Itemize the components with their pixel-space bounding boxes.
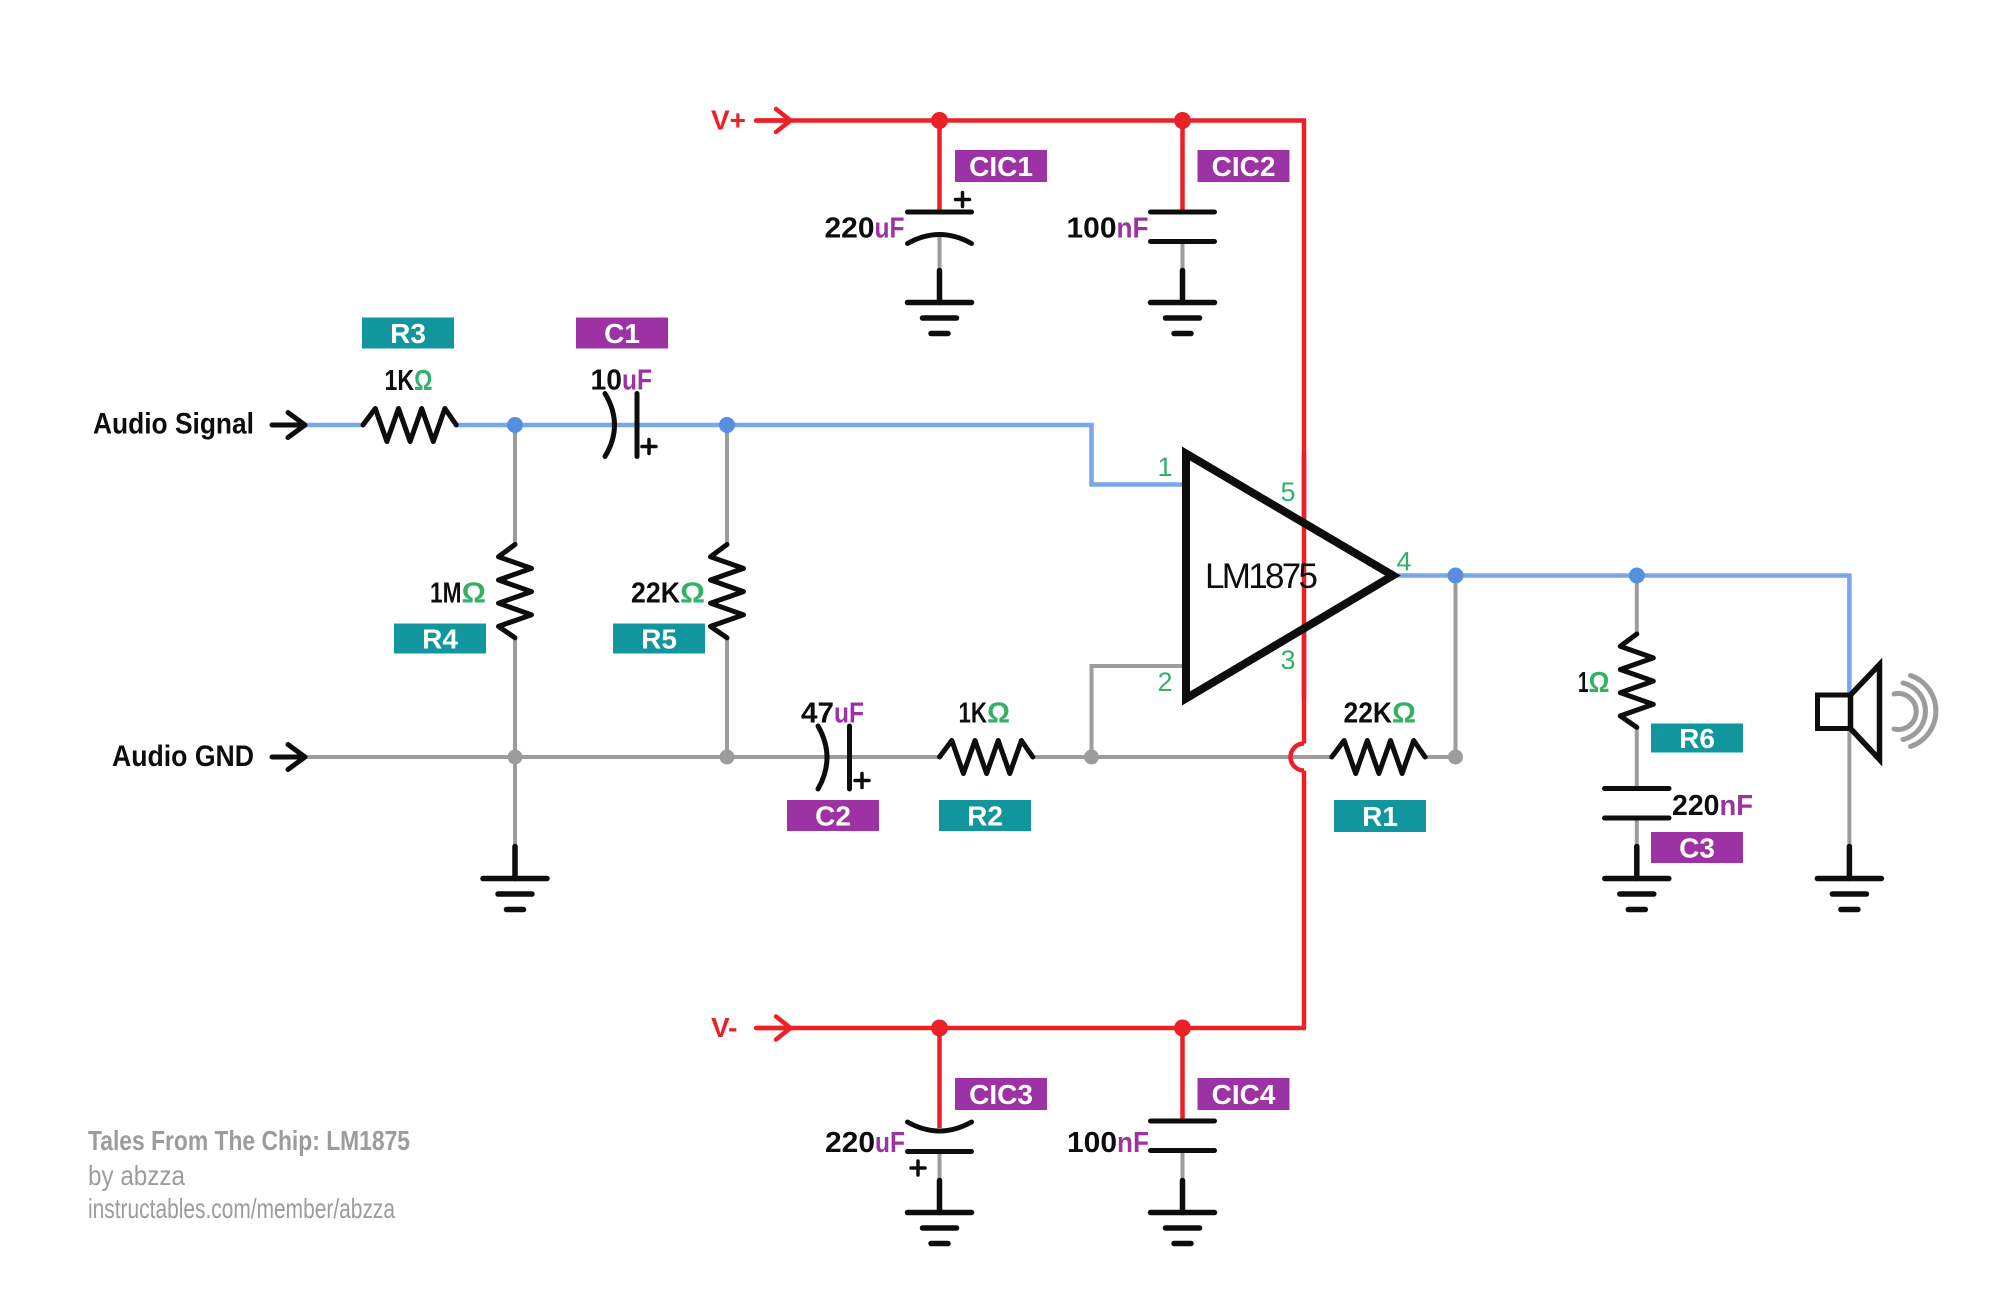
capacitor C3 220nF top plate (1605, 789, 1670, 819)
capacitor CIC3 bottom plate (908, 1149, 972, 1154)
label box R1 (1334, 800, 1426, 832)
node: signal / R4 junction (507, 417, 523, 433)
ground below CIC1 (908, 271, 972, 334)
label box R5 (613, 624, 705, 655)
svg-text:220: 220 (825, 1127, 875, 1159)
svg-text:C3: C3 (1679, 833, 1715, 864)
wire: inverting input elbow up from feedback node (1092, 666, 1187, 757)
pin 1 label (1157, 452, 1411, 697)
capacitor CIC4 bottom plate (1151, 1148, 1215, 1153)
label box R3 (362, 318, 454, 350)
value label C2 47uF (801, 698, 864, 730)
speaker magnet box (1818, 695, 1851, 729)
capacitor CIC3 220uF curved plate (908, 1122, 972, 1152)
node: feedback / output column junction (1448, 750, 1463, 765)
capacitor C1 10uF curved plate (605, 394, 637, 457)
svg-text:instructables.com/member/abzza: instructables.com/member/abzza (88, 1193, 395, 1224)
ground below CIC3 (908, 1181, 972, 1244)
V+ arrow (756, 109, 791, 132)
svg-text:by abzza: by abzza (88, 1160, 185, 1191)
label box C1 (576, 318, 668, 350)
svg-text:Ω: Ω (1589, 667, 1610, 699)
svg-text:R1: R1 (1362, 801, 1398, 832)
svg-text:uF: uF (834, 698, 864, 730)
svg-text:Audio GND: Audio GND (112, 740, 254, 773)
value label R2 1K ohm (959, 698, 1011, 730)
svg-text:100: 100 (1067, 213, 1117, 245)
svg-text:10: 10 (591, 365, 623, 397)
svg-text:1K: 1K (959, 698, 988, 730)
label box CIC2 (1198, 150, 1290, 182)
node: V- / CIC4 junction (1174, 1020, 1191, 1037)
svg-text:220: 220 (1672, 790, 1720, 822)
capacitor CIC1 curved plate (908, 235, 972, 244)
label box CIC3 (955, 1078, 1047, 1110)
capacitor C2 47uF curved plate (818, 726, 850, 789)
svg-text:3: 3 (1280, 645, 1295, 675)
value label CIC1 220uF (825, 213, 905, 245)
svg-text:22K: 22K (631, 578, 680, 610)
capacitor C2 plus sign (855, 774, 869, 788)
svg-text:1: 1 (1578, 667, 1589, 699)
wire: C3 to ground (1635, 818, 1639, 847)
wire: audio signal into R3 (305, 423, 363, 428)
svg-text:4: 4 (1396, 547, 1411, 577)
wire: R6 column lower to C3 (1635, 727, 1639, 790)
label box C2 (787, 800, 879, 832)
ground below R4 node (483, 847, 547, 910)
wire: right vertical supply link upper (1302, 121, 1307, 744)
svg-text:CIC4: CIC4 (1212, 1079, 1276, 1110)
svg-text:Tales From The Chip: LM1875: Tales From The Chip: LM1875 (88, 1125, 410, 1156)
label box CIC4 (1198, 1078, 1290, 1110)
wire: CIC1 lower stub (938, 236, 942, 271)
node: GND / R5 junction (720, 750, 735, 765)
svg-text:R3: R3 (390, 318, 426, 349)
ground below C3 (1605, 847, 1669, 910)
value label C1 10uF (591, 365, 653, 397)
svg-text:C1: C1 (604, 318, 640, 349)
value label R1 22K ohm (1344, 698, 1417, 730)
resistor R5 22K (711, 545, 744, 638)
speaker sound waves (1894, 676, 1936, 747)
svg-text:1M: 1M (430, 578, 462, 610)
wire: V- rail (756, 1026, 1306, 1031)
op-amp U1 LM1875 outline (1186, 454, 1393, 699)
wire: R5 column lower (725, 638, 729, 757)
wire: CIC3 drop (937, 1028, 942, 1128)
svg-text:Audio Signal: Audio Signal (93, 408, 254, 441)
wire: R5 column upper (725, 425, 729, 545)
label box R6 (1651, 723, 1743, 754)
value label CIC4 100nF (1067, 1127, 1149, 1159)
resistor R4 1M (499, 545, 532, 638)
value label R4 1M ohm (430, 578, 486, 610)
capacitor CIC2 bottom plate (1151, 239, 1215, 244)
wire: R4 column lower (resistor to GND rail) (513, 638, 517, 757)
speaker cone (1851, 665, 1880, 760)
Audio GND arrow (272, 745, 305, 770)
value label R6 1 ohm (1578, 667, 1610, 699)
value label CIC3 220uF (825, 1127, 905, 1159)
resistor R6 1 ohm (1620, 634, 1653, 727)
wire: right vertical supply link lower (1302, 771, 1307, 1029)
wire: op-amp output rail (1390, 576, 1849, 695)
svg-text:uF: uF (875, 213, 905, 245)
capacitor CIC1 220uF top plate (908, 212, 972, 244)
node: inverting input junction (1084, 750, 1099, 765)
svg-text:220: 220 (825, 213, 875, 245)
node: output / feedback junction (1448, 568, 1464, 584)
capacitor CIC2 100nF top plate (1151, 212, 1215, 242)
wire: signal from R3 through C1 to op-amp input (456, 425, 1186, 485)
node: V+ / CIC1 junction (931, 112, 948, 129)
svg-text:CIC1: CIC1 (969, 151, 1033, 182)
label box R2 (939, 800, 1031, 832)
wire: red supply link across op-amp (redraw over fill) (1302, 454, 1307, 698)
svg-text:R2: R2 (967, 801, 1003, 832)
wire: speaker to ground (1847, 729, 1851, 848)
svg-text:100: 100 (1067, 1127, 1117, 1159)
svg-text:CIC2: CIC2 (1212, 151, 1276, 182)
ground below CIC2 (1151, 271, 1215, 334)
svg-text:22K: 22K (1344, 698, 1393, 730)
capacitor C2 straight plate (847, 726, 852, 789)
wire: R4 node to ground symbol (513, 757, 517, 847)
capacitor C1 straight plate (635, 394, 640, 457)
node: V- / CIC3 junction (931, 1020, 948, 1037)
svg-text:Ω: Ω (987, 698, 1010, 730)
node: V+ / CIC2 junction (1174, 112, 1191, 129)
wire: feedback from R1 to output column (1425, 755, 1455, 759)
op-amp U1 LM1875 body fill (1186, 454, 1393, 699)
V- arrow (756, 1017, 791, 1040)
ground below CIC4 (1151, 1181, 1215, 1244)
value label C3 220nF (1672, 790, 1753, 822)
svg-text:C2: C2 (815, 801, 851, 832)
wire: R4 column upper (signal node to resistor) (513, 425, 517, 545)
svg-text:LM1875: LM1875 (1205, 557, 1318, 596)
ground below speaker (1817, 847, 1881, 910)
svg-text:R5: R5 (641, 624, 677, 655)
svg-text:V+: V+ (711, 105, 746, 136)
wire: CIC4 drop (1180, 1028, 1185, 1123)
wire: CIC2 drop (1180, 121, 1185, 210)
Audio Signal arrow (272, 413, 305, 438)
svg-text:nF: nF (1117, 1127, 1149, 1159)
svg-text:R6: R6 (1679, 723, 1715, 754)
capacitor C3 bottom plate (1605, 816, 1670, 821)
label box C3 (1651, 832, 1743, 864)
capacitor C1 plus sign (642, 440, 656, 454)
svg-text:CIC3: CIC3 (969, 1079, 1033, 1110)
capacitor CIC3 plus sign (911, 1161, 925, 1175)
capacitor CIC4 100nF top plate (1151, 1121, 1215, 1151)
capacitor CIC1 plus sign (956, 193, 970, 207)
svg-text:Ω: Ω (1392, 698, 1416, 730)
value label R5 22K ohm (631, 578, 705, 610)
wire: Audio GND horizontal rail (305, 755, 940, 759)
wire: R6 column upper (1635, 576, 1639, 635)
wire: CIC4 lower stub (1181, 1152, 1185, 1181)
wire: hop over feedback (1291, 744, 1305, 771)
svg-text:1: 1 (1157, 452, 1172, 482)
label box CIC1 (955, 150, 1047, 182)
value label CIC2 100nF (1067, 213, 1149, 245)
resistor R3 1K (363, 409, 456, 442)
svg-text:47: 47 (801, 698, 834, 730)
node: C1 / R5 junction (719, 417, 735, 433)
wire: GND rail between R2 and feedback node (1033, 755, 1332, 759)
svg-text:Ω: Ω (462, 578, 487, 610)
svg-text:R4: R4 (422, 624, 458, 655)
wire: CIC3 lower stub (938, 1152, 942, 1181)
resistor R1 22K (1332, 741, 1425, 774)
wire: CIC2 lower stub (1181, 243, 1185, 271)
svg-text:uF: uF (622, 365, 652, 397)
svg-text:2: 2 (1157, 667, 1172, 697)
svg-text:nF: nF (1720, 790, 1754, 822)
svg-text:V-: V- (711, 1012, 737, 1043)
resistor R2 1K (940, 741, 1033, 774)
wire: CIC1 drop (937, 121, 942, 210)
svg-text:uF: uF (875, 1127, 905, 1159)
svg-text:nF: nF (1117, 213, 1149, 245)
svg-text:Ω: Ω (414, 365, 433, 397)
svg-text:5: 5 (1280, 477, 1295, 507)
label box R4 (394, 624, 486, 655)
node: output / R6 junction (1629, 568, 1645, 584)
wire: V+ rail (756, 118, 1306, 123)
svg-text:Ω: Ω (680, 578, 705, 610)
wire: output column down to feedback (1454, 576, 1458, 758)
svg-text:1K: 1K (385, 365, 415, 397)
node: GND / R4 junction (508, 750, 523, 765)
value label R3 1K ohm (385, 365, 433, 397)
